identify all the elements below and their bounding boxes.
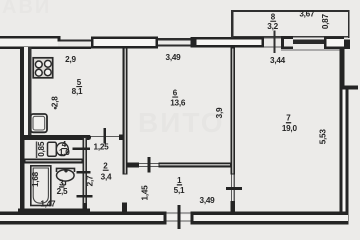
entrance jamb caps xyxy=(164,212,167,225)
svg-text:8,1: 8,1 xyxy=(72,87,83,96)
svg-text:8: 8 xyxy=(271,13,276,22)
wall W1 kitchen/room6 and hall/room1 divider xyxy=(123,48,128,175)
svg-text:3,2: 3,2 xyxy=(267,22,278,31)
svg-text:5: 5 xyxy=(77,78,82,87)
wall W5b room6/room1 right piece xyxy=(159,162,231,167)
svg-text:1,0: 1,0 xyxy=(59,148,70,157)
room6 door opening thin lines xyxy=(139,163,159,164)
balcony right railing xyxy=(348,10,350,38)
svg-text:5,53: 5,53 xyxy=(318,129,327,145)
kitchen door opening face line xyxy=(91,136,123,137)
svg-text:2,9: 2,9 xyxy=(65,55,76,64)
wc door tick xyxy=(73,148,91,151)
svg-text:1: 1 xyxy=(177,176,182,185)
room7 door opening thin lines xyxy=(231,175,232,202)
wall W2 wc/bath east xyxy=(82,137,87,212)
balcony window strip xyxy=(293,40,324,45)
kitchen sink xyxy=(31,114,47,132)
svg-text:2,5: 2,5 xyxy=(57,187,68,196)
svg-text:6: 6 xyxy=(173,89,178,98)
right wall neighbor tick xyxy=(340,86,359,90)
bottom wall stub at hall opening xyxy=(122,203,127,213)
kitchen door jamb at wall W1 xyxy=(119,135,124,140)
svg-text:0,85: 0,85 xyxy=(37,141,46,157)
balcony sill line xyxy=(232,36,350,38)
left wall bathroom section xyxy=(20,134,25,212)
svg-text:ВИТО: ВИТО xyxy=(138,107,225,138)
svg-text:2: 2 xyxy=(103,162,108,171)
wall top-left hollow core xyxy=(0,39,58,47)
bottom wall top face left xyxy=(0,212,167,216)
toilet xyxy=(56,143,68,156)
svg-text:3,49: 3,49 xyxy=(166,53,182,62)
svg-text:3,9: 3,9 xyxy=(215,107,224,118)
balcony left wall xyxy=(231,10,233,38)
right wall double (inner) xyxy=(340,90,343,212)
right wall double (white core) xyxy=(342,90,345,212)
bath door tick lower xyxy=(77,195,93,198)
wall top-left inner face line xyxy=(0,47,91,49)
wall band between windows xyxy=(158,38,191,40)
window W2 room 7 / balcony block xyxy=(194,37,264,48)
balcony top railing xyxy=(231,10,350,12)
svg-text:7: 7 xyxy=(286,114,291,123)
top-right wall corner xyxy=(344,40,350,49)
balcony door opening thin lines xyxy=(264,37,281,38)
balcony end window block xyxy=(324,37,344,50)
wall W6 lower piece xyxy=(231,201,235,212)
window jamb step at kitchen corner xyxy=(57,36,60,42)
balcony door jamb block xyxy=(281,36,284,49)
svg-text:3,49: 3,49 xyxy=(200,196,216,205)
bathroom sink xyxy=(57,168,75,172)
entrance door opening thin lines xyxy=(167,213,191,214)
wall W6 room6/room7 divider xyxy=(231,48,235,175)
svg-text:1,25: 1,25 xyxy=(94,143,110,152)
bottom wall stub at W2 xyxy=(83,203,88,212)
left wall kitchen inner face xyxy=(28,47,32,135)
kitchen door leaf xyxy=(104,128,107,144)
bath door tick upper xyxy=(77,171,91,174)
bottom wall bottom face xyxy=(0,221,167,224)
dimension line at balcony door xyxy=(274,31,276,54)
stove xyxy=(33,58,53,78)
wall W5a room6/room1 left piece xyxy=(128,162,140,167)
svg-text:19,0: 19,0 xyxy=(282,124,298,133)
room6 door leaf xyxy=(148,157,151,173)
wc duct line xyxy=(36,142,38,159)
svg-text:3,4: 3,4 xyxy=(101,173,112,182)
svg-text:13,6: 13,6 xyxy=(170,98,186,107)
svg-text:1,47: 1,47 xyxy=(40,199,56,208)
svg-text:3,67: 3,67 xyxy=(299,10,315,19)
svg-text:5,1: 5,1 xyxy=(174,186,185,195)
left wall kitchen outer face xyxy=(20,47,24,136)
window jamb left of big window xyxy=(191,37,195,48)
kitchen window glazing line xyxy=(61,40,92,42)
faucet dot between stove and sink xyxy=(54,107,57,110)
bottom wall white core xyxy=(0,215,348,221)
svg-text:АВИ: АВИ xyxy=(2,0,51,18)
svg-text:3,44: 3,44 xyxy=(270,56,286,65)
wall top-left outer face line xyxy=(0,36,60,38)
svg-text:2,8: 2,8 xyxy=(50,96,59,107)
right wall double (outer) xyxy=(345,90,348,225)
bathtub xyxy=(31,166,51,206)
svg-text:1,45: 1,45 xyxy=(141,185,150,201)
entrance door leaf xyxy=(178,205,181,229)
kitchen south wall xyxy=(20,135,91,140)
window W1 over kitchen/room6 xyxy=(91,37,158,49)
bathroom bottom thick band xyxy=(18,209,90,216)
room7 door leaf xyxy=(226,187,242,190)
left wall kitchen hollow core xyxy=(24,47,28,135)
thin face line under balcony glazing xyxy=(281,49,343,50)
svg-text:2,7: 2,7 xyxy=(86,175,95,186)
svg-text:3: 3 xyxy=(59,178,64,187)
svg-text:0,87: 0,87 xyxy=(321,14,330,30)
bottom wall top face right xyxy=(191,212,349,216)
svg-text:1,68: 1,68 xyxy=(31,171,40,187)
wall W3 wc/bath divider xyxy=(25,158,83,163)
right wall upper single xyxy=(340,48,345,88)
